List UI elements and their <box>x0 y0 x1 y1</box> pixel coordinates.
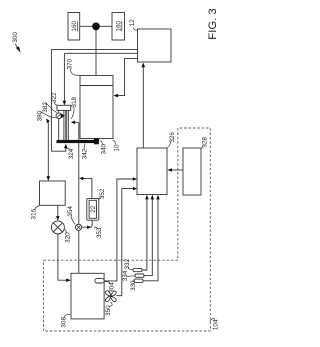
label 320 <box>65 232 72 243</box>
arrow for 300 <box>15 44 18 50</box>
valve 353 (small circle X) <box>76 224 82 230</box>
wire fan to 326 <box>116 189 135 296</box>
label 316 <box>31 209 38 220</box>
sensor wires to 326 bottom <box>142 197 147 271</box>
label 352 <box>99 188 106 199</box>
battery wire lower (arrow from 353) <box>82 220 93 227</box>
FIG. 3 title <box>207 8 219 39</box>
svg-text:330: 330 <box>130 280 137 291</box>
dashed system boundary 104 with 328 stem <box>44 128 211 331</box>
label 328 <box>202 137 209 148</box>
label 350 <box>105 305 112 316</box>
intake manifold band 322 <box>57 105 71 110</box>
label 370 <box>67 59 74 70</box>
wire into runner (coolant) left arrow <box>72 121 79 123</box>
svg-text:160: 160 <box>116 20 123 31</box>
label 304 <box>109 282 116 293</box>
battery wire upper (arrow into coolant wire) <box>81 178 92 198</box>
svg-text:353: 353 <box>96 227 103 238</box>
svg-text:354: 354 <box>67 206 74 217</box>
inner box in 328 <box>183 148 201 195</box>
svg-text:10: 10 <box>114 144 121 152</box>
svg-text:322: 322 <box>51 92 58 103</box>
label 12 <box>129 19 136 27</box>
label 300 <box>12 32 19 43</box>
label 322 <box>51 92 58 103</box>
svg-text:352: 352 <box>99 188 106 199</box>
svg-text:320: 320 <box>65 232 72 243</box>
radiator box 308 <box>71 273 104 319</box>
svg-text:340: 340 <box>101 144 108 155</box>
svg-text:308: 308 <box>60 317 67 328</box>
label 332 <box>124 258 131 269</box>
svg-text:22: 22 <box>90 205 97 213</box>
engine block 10 <box>80 76 113 139</box>
label 324 <box>68 148 75 159</box>
wire 328 to 326 arrow <box>170 169 184 171</box>
svg-text:12: 12 <box>129 19 136 27</box>
box 316 <box>40 181 66 205</box>
label 380 <box>37 110 44 121</box>
wire 326 to 12 arrow <box>142 67 144 148</box>
sensor pill 334 <box>135 274 144 277</box>
svg-text:334: 334 <box>122 270 129 281</box>
svg-text:FIG. 3: FIG. 3 <box>207 8 219 39</box>
coolant wire down to valve 353 <box>78 122 80 224</box>
wire W1 : box12 to injector bar arrow <box>51 49 137 151</box>
wire sensor 304 to 326 <box>104 179 135 281</box>
label 104 <box>212 319 219 330</box>
svg-text:326: 326 <box>169 132 176 143</box>
sensor pill 332 <box>133 268 142 271</box>
label 326 <box>169 132 176 143</box>
label 318 <box>71 97 78 108</box>
temp sensor pill 304 <box>95 279 104 283</box>
wire 320 to radiator <box>58 234 67 280</box>
controller box 12 <box>138 29 172 62</box>
throttle control wire (double arrow) <box>47 122 49 177</box>
svg-text:104: 104 <box>212 319 219 330</box>
throttle leader arrowhead 382 <box>61 113 65 118</box>
wire dot to engine top <box>95 30 97 76</box>
label 342 <box>82 148 89 159</box>
label 354 <box>67 206 74 217</box>
label 353 <box>96 227 103 238</box>
label 382 <box>42 102 49 113</box>
battery 22 <box>87 198 99 220</box>
label 10 <box>114 144 121 152</box>
valve 320 (circle X) <box>51 221 64 234</box>
engine head band line <box>80 85 113 87</box>
label 330 <box>130 280 137 291</box>
box 160 left (drive wheel) <box>68 13 80 41</box>
label 308 <box>60 317 67 328</box>
fan 350 <box>105 291 116 302</box>
throttle valve circle 380 <box>56 113 62 119</box>
sensor pill 330 <box>134 279 143 282</box>
coolant wire below 353 to radiator top <box>78 230 80 273</box>
svg-text:328: 328 <box>202 137 209 148</box>
thick intake runner bar 324 <box>57 140 100 143</box>
svg-text:342: 342 <box>82 148 89 159</box>
intake pipe below throttle <box>58 110 60 140</box>
wire W2 : box12 to intake manifold arrow <box>64 53 137 101</box>
svg-text:318: 318 <box>71 97 78 108</box>
svg-text:160: 160 <box>71 20 78 31</box>
controller box 326 <box>137 148 167 195</box>
box 160 right (drive wheel) <box>112 13 125 41</box>
junction dot <box>92 23 100 31</box>
intake runner column <box>63 110 65 139</box>
label 334 <box>122 270 129 281</box>
wire W3 : box12 to engine right arrow <box>118 58 138 95</box>
label 340 <box>101 144 108 155</box>
svg-text:370: 370 <box>67 59 74 70</box>
wire axle 160L-160R <box>80 25 112 27</box>
svg-text:316: 316 <box>31 209 38 220</box>
svg-text:300: 300 <box>12 32 19 43</box>
wire 316 to valve 320 <box>57 205 59 216</box>
